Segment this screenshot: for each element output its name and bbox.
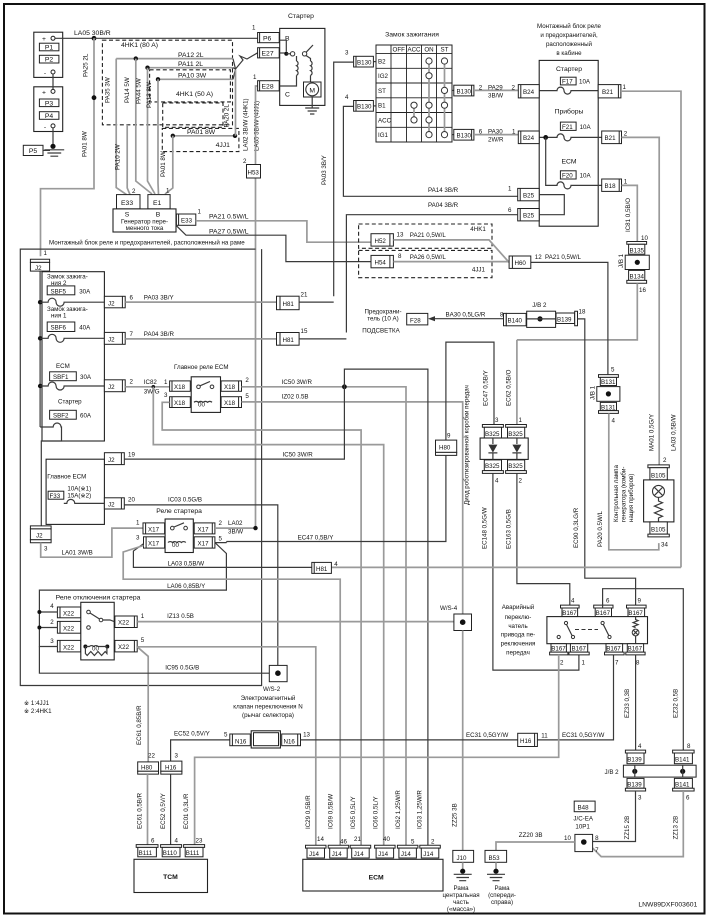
svg-text:EC47 0,5B/Y: EC47 0,5B/Y <box>298 535 334 542</box>
svg-text:ZZ25 3B: ZZ25 3B <box>451 803 458 827</box>
svg-text:LA02 3B/W (4HK1): LA02 3B/W (4HK1) <box>242 98 249 151</box>
svg-text:5: 5 <box>141 637 145 644</box>
connector B167 pin 9 <box>627 598 647 618</box>
svg-text:B140: B140 <box>508 318 523 325</box>
svg-text:3: 3 <box>345 50 349 57</box>
connector B167 pin 7 <box>605 644 625 667</box>
svg-text:5: 5 <box>611 367 615 374</box>
svg-text:PA26 0,5W/L: PA26 0,5W/L <box>410 254 447 261</box>
connector J2 pin 20 <box>104 497 135 510</box>
svg-text:Рама: Рама <box>494 885 510 892</box>
svg-text:ACC: ACC <box>378 117 392 124</box>
connector B131 pin 4 <box>599 402 619 424</box>
connector B139 (middle JB2) <box>556 309 586 326</box>
svg-text:PA01 8W: PA01 8W <box>81 131 88 157</box>
svg-text:H16: H16 <box>165 765 177 772</box>
svg-text:EC148 0,5G/W: EC148 0,5G/W <box>482 507 489 549</box>
svg-text:EC47 0,5B/Y: EC47 0,5B/Y <box>483 370 490 406</box>
svg-text:7: 7 <box>130 331 134 338</box>
svg-text:B131: B131 <box>601 379 616 386</box>
svg-text:Электромагнитный: Электромагнитный <box>241 695 296 702</box>
wire EC31 0.5GY/W (N16-13 to H16-11 to B167-7) <box>301 655 614 740</box>
svg-text:21: 21 <box>301 292 308 299</box>
svg-text:PA03 3B/Y: PA03 3B/Y <box>144 295 174 302</box>
svg-text:B21: B21 <box>602 89 614 96</box>
connector B167 pin 8 <box>626 644 645 667</box>
svg-text:-: - <box>44 70 46 77</box>
fuse SBF5 30A (ignition lock 2) <box>38 274 104 307</box>
svg-text:IZ02 0.5B: IZ02 0.5B <box>282 394 309 401</box>
svg-text:Рама: Рама <box>453 885 469 892</box>
connector H52 pin 13 <box>371 232 404 247</box>
svg-text:Замок зажигания: Замок зажигания <box>385 32 439 39</box>
svg-text:EC61 0,85B/R: EC61 0,85B/R <box>136 705 143 745</box>
svg-text:H81: H81 <box>283 301 295 308</box>
wire X17-3 gray branch to IC69 run <box>123 546 340 846</box>
svg-text:11: 11 <box>541 733 548 740</box>
svg-text:-: - <box>44 124 46 131</box>
node junction F21/F20 <box>543 135 548 140</box>
connector B111 pin 6 <box>136 838 158 858</box>
svg-text:8: 8 <box>595 835 599 842</box>
dashed box 4HK1 (H52) <box>359 224 492 248</box>
svg-text:S: S <box>125 212 130 219</box>
svg-text:H54: H54 <box>375 260 387 267</box>
connector B325 pin 4 <box>482 460 503 485</box>
connector B18 pin 1 <box>602 179 628 192</box>
connector J2 pin 7 <box>104 331 133 344</box>
svg-text:2: 2 <box>519 478 523 485</box>
wire ZZ13 2B B141-6 to B48-7 <box>593 791 684 857</box>
svg-text:10: 10 <box>641 235 648 242</box>
svg-text:B130: B130 <box>457 133 472 140</box>
connector H60 pin 12 <box>509 254 542 268</box>
svg-text:J14: J14 <box>378 851 389 858</box>
connector H16 pin 3 (TCM) <box>161 753 182 775</box>
fuse SBF2 60A (starter) <box>40 399 92 526</box>
svg-text:B: B <box>156 212 161 219</box>
svg-text:J/B 2: J/B 2 <box>605 769 620 776</box>
svg-text:H81: H81 <box>283 337 295 344</box>
wire battery2-minus to ground <box>52 128 54 146</box>
svg-text:IC29 0,5B/R: IC29 0,5B/R <box>305 795 312 829</box>
svg-text:6: 6 <box>130 295 134 302</box>
ground (battery) <box>44 144 64 157</box>
wire PA35 3W <box>116 59 126 195</box>
svg-text:P5: P5 <box>29 148 38 155</box>
svg-text:PA03 3B/Y: PA03 3B/Y <box>321 155 328 185</box>
splice W/S-2 <box>263 665 287 693</box>
svg-text:1: 1 <box>624 179 628 186</box>
svg-text:4: 4 <box>571 598 575 605</box>
svg-text:PA27 0,5W/L: PA27 0,5W/L <box>209 229 249 236</box>
svg-text:B1: B1 <box>378 103 386 110</box>
wire B25-6 to H81-15 (PA04 3B/R) <box>346 215 517 333</box>
wire H80-9 down to EC47 junction <box>227 455 446 541</box>
svg-text:1: 1 <box>519 417 523 424</box>
svg-text:IC50 3W/R: IC50 3W/R <box>282 379 313 386</box>
svg-text:LA02: LA02 <box>228 520 243 527</box>
ignition switch contacts <box>411 58 448 138</box>
svg-text:Главное реле ECM: Главное реле ECM <box>174 364 229 371</box>
svg-text:F28: F28 <box>410 318 421 325</box>
svg-text:EC61 0,5B/R: EC61 0,5B/R <box>137 792 144 829</box>
svg-text:J/B 1: J/B 1 <box>618 253 625 268</box>
connector J2 pin 6 <box>104 295 133 308</box>
connector E33 (alternator pin 2) <box>117 188 141 209</box>
svg-text:+: + <box>42 90 46 97</box>
connector J2 pin 19 <box>104 452 135 465</box>
svg-text:в кабине: в кабине <box>556 50 582 57</box>
svg-text:IG2: IG2 <box>378 73 389 80</box>
svg-text:передач: передач <box>506 650 530 657</box>
svg-text:ZZ13 2B: ZZ13 2B <box>673 816 680 840</box>
svg-text:B167: B167 <box>572 646 587 653</box>
svg-text:C: C <box>285 92 290 99</box>
svg-text:5: 5 <box>224 732 228 739</box>
svg-text:B141: B141 <box>675 781 690 788</box>
svg-text:ZZ20 3B: ZZ20 3B <box>519 832 543 839</box>
wire EC163 0.5G/B B325-2 to B167-4 <box>517 473 570 616</box>
svg-text:1: 1 <box>198 209 202 216</box>
svg-text:LA03 0,5B/W: LA03 0,5B/W <box>671 414 678 451</box>
svg-text:5: 5 <box>245 393 249 400</box>
svg-text:19: 19 <box>128 452 135 459</box>
wire PA44 5W <box>145 66 149 70</box>
svg-text:EC01 0,3L/R: EC01 0,3L/R <box>183 793 190 829</box>
connector B141 pin 8 <box>673 743 695 764</box>
svg-text:IC63 1,25W/R: IC63 1,25W/R <box>417 790 424 829</box>
svg-text:EC31 0,5GY/W: EC31 0,5GY/W <box>562 732 604 739</box>
svg-text:ECM: ECM <box>561 159 576 166</box>
wire PA10 2W to E33 <box>127 125 130 195</box>
svg-text:2W/R: 2W/R <box>488 137 504 144</box>
svg-text:PA13 8W: PA13 8W <box>146 82 153 108</box>
svg-text:4: 4 <box>345 94 349 101</box>
wire H81-15 to PA04 vertical <box>299 338 346 340</box>
svg-text:4: 4 <box>638 743 642 750</box>
svg-text:10A: 10A <box>579 79 591 86</box>
svg-text:Стартер: Стартер <box>288 13 314 20</box>
svg-text:4: 4 <box>50 603 54 610</box>
connector B325 pin 1 <box>506 417 527 438</box>
svg-text:PA04 3B/R: PA04 3B/R <box>428 202 459 209</box>
svg-text:J/B 1: J/B 1 <box>590 385 597 400</box>
starter box <box>280 28 325 105</box>
svg-text:4: 4 <box>612 418 616 425</box>
svg-text:4HK1: 4HK1 <box>470 226 486 233</box>
connector H80 pin 9 <box>436 433 457 456</box>
svg-text:и предохранителей,: и предохранителей, <box>540 32 598 39</box>
svg-text:B325: B325 <box>485 463 500 470</box>
svg-text:1: 1 <box>164 379 168 386</box>
connector P6 <box>252 25 279 43</box>
svg-text:2: 2 <box>50 619 54 626</box>
connector B48 label <box>573 801 595 830</box>
svg-text:TCM: TCM <box>163 874 178 881</box>
svg-text:Реле отключения стартера: Реле отключения стартера <box>56 595 141 602</box>
svg-text:13: 13 <box>397 232 404 239</box>
wire B25 bracket <box>539 195 564 215</box>
svg-text:PA21 0.5W/L: PA21 0.5W/L <box>209 214 249 221</box>
svg-text:LA05 30B/R: LA05 30B/R <box>74 30 111 37</box>
svg-text:4: 4 <box>175 838 179 845</box>
main ECM fuse box <box>46 459 104 524</box>
svg-text:X22: X22 <box>63 611 75 618</box>
svg-text:EZ33 0,3B: EZ33 0,3B <box>624 689 631 718</box>
svg-text:2: 2 <box>560 660 564 667</box>
wire E28 down (LA02/LA05) <box>256 86 258 528</box>
wire B134-16 to EC62 (via left) <box>517 283 637 340</box>
svg-text:B325: B325 <box>485 431 500 438</box>
svg-text:H60: H60 <box>515 260 527 267</box>
wire PA20 0.5W/L B131-4 to B105-34 <box>609 413 659 549</box>
svg-text:X17: X17 <box>148 527 160 534</box>
junction box J/B 2 (middle) <box>527 302 556 327</box>
svg-text:X22: X22 <box>118 620 130 627</box>
connector B130 pin 6 (right) <box>452 129 474 140</box>
wire zigzag to E27 <box>233 53 258 80</box>
wire H81-21 to PA03 vertical <box>299 301 334 303</box>
wire PA20 2L <box>235 70 237 136</box>
wire X17-5 branch to LA06 <box>39 543 226 612</box>
connector J14 pin 5 <box>397 839 418 859</box>
svg-text:B105: B105 <box>651 473 666 480</box>
svg-text:B25: B25 <box>523 213 535 220</box>
svg-text:B111: B111 <box>139 850 153 857</box>
connector J14 pin 40 <box>375 836 396 858</box>
wire EC61 0.5B/R H80-22 to B111-6 <box>147 774 149 845</box>
connector B139 pin 4 <box>625 743 645 764</box>
svg-text:справа): справа) <box>491 899 513 906</box>
svg-text:4: 4 <box>334 561 338 568</box>
svg-text:J14: J14 <box>354 851 365 858</box>
wire PA13 8W <box>156 77 160 81</box>
svg-text:расположенный: расположенный <box>546 41 593 48</box>
connector J14 pin 2 <box>420 839 441 859</box>
wire ZZ15 2B B139-3 to B48-8 <box>593 791 636 842</box>
svg-text:10P1: 10P1 <box>575 824 590 831</box>
svg-text:7: 7 <box>595 847 599 854</box>
svg-text:B24: B24 <box>523 89 535 96</box>
svg-text:часть: часть <box>453 899 469 906</box>
svg-text:B18: B18 <box>605 183 617 190</box>
connector H16 pin 11 <box>518 733 549 747</box>
relay X18 <box>170 377 250 413</box>
svg-text:1: 1 <box>141 613 145 620</box>
relay box J2 (frame) <box>42 272 104 441</box>
wire PA01 8W to E1 <box>165 136 173 194</box>
svg-text:J2: J2 <box>108 457 115 464</box>
wire ZZ25 3B (W/S-4 down to J10) <box>462 631 464 851</box>
ground J10 <box>454 862 472 880</box>
svg-text:ST: ST <box>378 88 386 95</box>
wire B130-4 to B25-1 (PA14 3B/R) <box>343 106 517 196</box>
connector B24 pin 1 <box>518 131 539 144</box>
fuse F33 <box>48 486 104 504</box>
connector B167 pin 1 <box>569 644 589 667</box>
emergency switch body <box>547 617 648 644</box>
svg-text:Реле стартера: Реле стартера <box>156 508 202 515</box>
wire frame box boundary <box>20 249 261 685</box>
svg-text:13: 13 <box>303 732 310 739</box>
svg-text:PA21 0,5W/L: PA21 0,5W/L <box>545 254 582 261</box>
svg-text:(спереди-: (спереди- <box>488 892 516 899</box>
svg-text:1: 1 <box>508 186 512 193</box>
svg-text:E33: E33 <box>181 218 193 225</box>
fuse SBF1 30A (ECM) <box>38 363 104 390</box>
svg-text:PA21 0,5W/L: PA21 0,5W/L <box>410 232 447 239</box>
svg-text:J14: J14 <box>401 851 412 858</box>
svg-text:F17: F17 <box>562 79 573 86</box>
wire X22 left bus (LA06 feed) <box>39 612 57 647</box>
svg-text:1: 1 <box>252 25 256 32</box>
svg-text:Монтажный блок реле: Монтажный блок реле <box>537 23 602 30</box>
svg-text:4JJ1: 4JJ1 <box>216 142 231 149</box>
svg-text:3: 3 <box>136 535 140 542</box>
fuse block 4HK1 (50 A) dashed box <box>150 70 231 102</box>
svg-text:B130: B130 <box>357 104 372 111</box>
svg-text:E1: E1 <box>153 200 162 207</box>
svg-text:ПОДСВЕТКА: ПОДСВЕТКА <box>362 328 400 335</box>
wire X18-3 to IC65 run <box>162 402 361 845</box>
svg-text:PA10 3W: PA10 3W <box>178 73 207 80</box>
wire IC82 fork down to IC66 run <box>153 387 383 846</box>
svg-text:PA14 3B/R: PA14 3B/R <box>428 187 459 194</box>
svg-text:LA01 3W/B: LA01 3W/B <box>62 550 93 557</box>
connector J14 pin 14 <box>306 836 327 858</box>
svg-text:10: 10 <box>564 835 571 842</box>
svg-text:J2: J2 <box>108 301 115 308</box>
svg-text:PA04 3B/R: PA04 3B/R <box>144 331 175 338</box>
svg-text:P3: P3 <box>45 100 54 107</box>
svg-text:※ 1:4JJ1: ※ 1:4JJ1 <box>24 700 50 707</box>
fuse SBF6 40A (ignition lock 1) <box>38 306 104 342</box>
svg-text:B130: B130 <box>357 60 372 67</box>
svg-text:X22: X22 <box>63 626 75 633</box>
svg-text:X18: X18 <box>224 384 236 391</box>
svg-text:N16: N16 <box>284 739 296 746</box>
wire J2 internal bus <box>39 271 41 427</box>
svg-text:X18: X18 <box>224 400 236 407</box>
wire B18-1 to IC81 vertical <box>622 185 638 241</box>
svg-text:21: 21 <box>354 836 361 843</box>
wire PA21 0.5W/L into B131-5 <box>531 262 608 374</box>
svg-text:7: 7 <box>615 660 619 667</box>
svg-text:3: 3 <box>638 795 642 802</box>
svg-text:6: 6 <box>151 838 155 845</box>
svg-text:Приборы: Приборы <box>555 108 584 116</box>
svg-text:H80: H80 <box>439 445 451 452</box>
dashed box 4JJ1 (H54) <box>359 250 492 277</box>
connector B25 pin 6 <box>508 207 539 221</box>
svg-text:10A(※1): 10A(※1) <box>67 486 91 493</box>
connector J10 (frame ground) <box>453 850 474 862</box>
svg-text:LA06 0,85B/Y: LA06 0,85B/Y <box>167 583 205 590</box>
svg-text:B167: B167 <box>562 610 577 617</box>
svg-text:Аварийный: Аварийный <box>502 604 535 611</box>
svg-text:3: 3 <box>50 638 54 645</box>
svg-text:20: 20 <box>128 497 135 504</box>
connector H80 pin 22 (TCM) <box>138 753 159 775</box>
wire B130-3 to PA03 vertical <box>334 62 354 296</box>
wire PA14 5W <box>134 56 138 60</box>
connector B140 <box>504 313 527 325</box>
connector B167 pin 4 <box>561 598 580 618</box>
connector B110 pin 4 <box>161 838 182 858</box>
svg-text:J14: J14 <box>332 851 343 858</box>
connector E33 (L terminal) <box>176 209 201 226</box>
fuse F17 10A <box>560 77 590 85</box>
svg-text:B21: B21 <box>605 135 617 142</box>
svg-text:6: 6 <box>508 207 512 214</box>
svg-text:N16: N16 <box>235 739 247 746</box>
connector B24 pin 2 <box>518 85 539 98</box>
svg-text:+: + <box>42 36 46 43</box>
wire EZ33 0.3B B167-8 to B139-4 <box>635 655 637 750</box>
svg-text:15: 15 <box>301 328 308 335</box>
svg-text:10A: 10A <box>580 124 592 131</box>
wire B21-1 to LA03 vertical <box>621 91 681 567</box>
svg-text:B2: B2 <box>378 59 386 66</box>
svg-text:Главное ECM: Главное ECM <box>47 474 86 481</box>
connector B135 <box>627 235 649 254</box>
connector J2 pin 1 <box>30 250 49 272</box>
svg-text:B111: B111 <box>186 850 200 857</box>
svg-text:3B/W: 3B/W <box>228 529 243 536</box>
svg-text:B130: B130 <box>457 88 472 95</box>
svg-text:Контрольная лампа: Контрольная лампа <box>613 465 620 522</box>
wire battery1-minus to battery2-plus <box>52 74 54 89</box>
connector J2 pin 3 (bottom) <box>30 526 51 553</box>
wire EC47 0.5B/Y (B325-3 feed) <box>446 342 494 440</box>
svg-text:14: 14 <box>317 836 324 843</box>
svg-text:W/S-4: W/S-4 <box>440 605 458 612</box>
svg-text:IC03 0.5G/B: IC03 0.5G/B <box>168 497 202 504</box>
svg-text:IC95 0.5G/B: IC95 0.5G/B <box>165 665 199 672</box>
svg-text:EC62 0,5B/O: EC62 0,5B/O <box>506 369 513 406</box>
svg-text:H80: H80 <box>141 765 153 772</box>
svg-text:SBF2: SBF2 <box>53 413 69 420</box>
svg-text:F20: F20 <box>562 173 573 180</box>
svg-text:B110: B110 <box>163 850 178 857</box>
svg-text:8: 8 <box>687 743 691 750</box>
connector B325 pin 3 <box>482 417 503 438</box>
svg-text:реключения: реключения <box>501 641 536 648</box>
relay X22 <box>50 602 137 660</box>
svg-text:15A(※2): 15A(※2) <box>67 493 91 500</box>
svg-text:B325: B325 <box>508 463 523 470</box>
svg-text:Стартер: Стартер <box>556 66 582 73</box>
connector J14 pin 21 <box>350 836 371 858</box>
svg-text:2: 2 <box>624 131 628 138</box>
svg-text:J14: J14 <box>309 851 320 858</box>
svg-text:LA03 0,5B/W: LA03 0,5B/W <box>168 561 205 568</box>
svg-text:Диод роботизированной коробки: Диод роботизированной коробки передач <box>464 385 471 505</box>
connector F28 <box>407 313 428 325</box>
fuse element F17 <box>539 87 598 94</box>
wire PA25 2L down <box>41 38 95 256</box>
svg-text:SBF6: SBF6 <box>51 325 67 332</box>
svg-text:переклю-: переклю- <box>505 614 532 621</box>
svg-text:4JJ1: 4JJ1 <box>472 267 486 274</box>
svg-text:2: 2 <box>663 457 667 464</box>
svg-text:EC52 0,5V/Y: EC52 0,5V/Y <box>174 731 210 738</box>
svg-text:IC81 0,5B/O: IC81 0,5B/O <box>625 198 632 232</box>
svg-text:60A: 60A <box>80 413 92 420</box>
svg-text:B167: B167 <box>628 610 643 617</box>
svg-text:IC50 3W/R: IC50 3W/R <box>283 452 314 459</box>
